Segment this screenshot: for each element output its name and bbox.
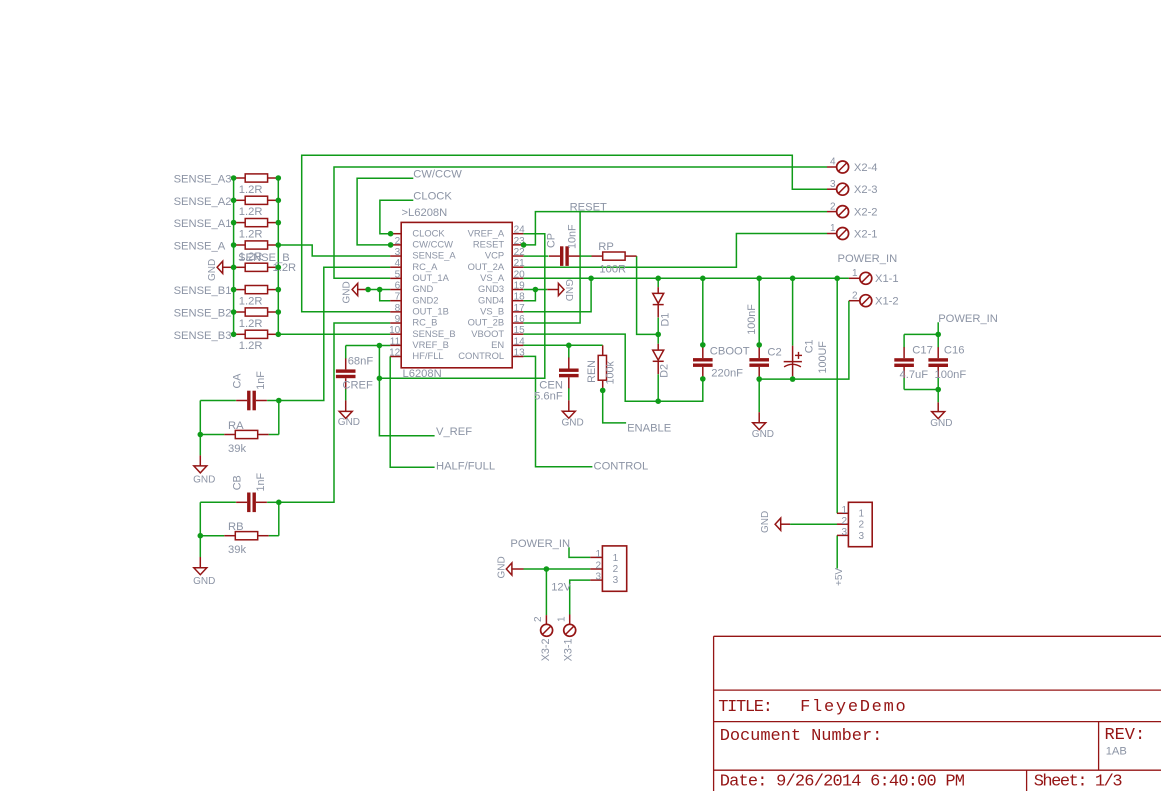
svg-text:RB: RB bbox=[228, 521, 244, 533]
connector screw X1-2 bbox=[849, 300, 860, 302]
svg-text:REN: REN bbox=[586, 360, 598, 383]
wire C16/C17 bottom tie bbox=[904, 389, 938, 391]
svg-text:GND: GND bbox=[496, 556, 507, 578]
wire C2 top from rail bbox=[758, 278, 760, 347]
svg-text:+5V: +5V bbox=[834, 568, 845, 586]
svg-text:3: 3 bbox=[859, 531, 865, 542]
svg-text:2: 2 bbox=[830, 201, 836, 212]
ground GND at SV1 pin2 bbox=[775, 518, 781, 530]
wire REN bottom to ENABLE label bbox=[603, 390, 626, 423]
junction dots sense array bbox=[231, 175, 237, 181]
resistor REN 100k bbox=[602, 345, 604, 355]
svg-text:3: 3 bbox=[613, 575, 619, 586]
svg-text:SENSE_A3: SENSE_A3 bbox=[174, 174, 232, 186]
svg-text:16: 16 bbox=[514, 314, 526, 325]
svg-text:14: 14 bbox=[514, 336, 526, 347]
svg-text:D1: D1 bbox=[660, 313, 672, 327]
connector X3 pin stubs bbox=[590, 556, 602, 558]
title block frame bbox=[714, 635, 1161, 637]
svg-text:GND: GND bbox=[752, 429, 774, 440]
svg-text:C1: C1 bbox=[803, 339, 815, 353]
wire X3 pin2 gnd row bbox=[524, 568, 591, 570]
svg-text:GND: GND bbox=[207, 259, 218, 281]
svg-text:6: 6 bbox=[395, 281, 401, 292]
svg-text:CW/CCW: CW/CCW bbox=[413, 169, 462, 181]
svg-text:Document Number:: Document Number: bbox=[720, 727, 883, 746]
wire CBOOT leads net bbox=[702, 278, 704, 348]
svg-text:1: 1 bbox=[852, 268, 858, 279]
svg-text:TITLE:: TITLE: bbox=[718, 698, 771, 717]
resistor 1.2R row 1 bbox=[234, 177, 246, 179]
wire C16 node to GND bbox=[937, 390, 939, 403]
ground GND at pins19/18 GND3 bbox=[547, 289, 558, 291]
IC U1 left pin stubs 1-12 bbox=[390, 233, 401, 235]
svg-text:4: 4 bbox=[830, 157, 836, 168]
junction dots bbox=[388, 231, 394, 237]
svg-text:RA: RA bbox=[228, 420, 244, 432]
wire X3-2 screw leg bbox=[545, 569, 547, 615]
svg-text:SENSE_B1: SENSE_B1 bbox=[174, 285, 232, 297]
svg-text:2: 2 bbox=[859, 520, 865, 531]
svg-text:9: 9 bbox=[395, 314, 401, 325]
svg-text:1.2R: 1.2R bbox=[239, 206, 263, 218]
svg-text:CREF: CREF bbox=[342, 379, 373, 391]
svg-text:39k: 39k bbox=[228, 544, 246, 556]
resistor 1.2R row 3 bbox=[234, 222, 246, 224]
wire CW/CCW pin2 to label bbox=[357, 178, 413, 245]
svg-text:17: 17 bbox=[514, 303, 526, 314]
svg-text:10nF: 10nF bbox=[566, 224, 578, 249]
svg-text:3: 3 bbox=[841, 527, 847, 538]
wire CA left leg down to RA/GND bbox=[199, 401, 201, 456]
ground GND at X3 pin2 bbox=[506, 563, 512, 575]
svg-text:1: 1 bbox=[613, 553, 619, 564]
svg-text:21: 21 bbox=[514, 258, 526, 269]
wire sense array left rail bbox=[233, 178, 235, 334]
connector screw X2-4 bbox=[827, 166, 837, 168]
wire RESET net: pin23 leg, label run to X2-2, pin16 leg bbox=[524, 212, 827, 245]
svg-text:5.6nF: 5.6nF bbox=[534, 391, 563, 403]
svg-text:EN: EN bbox=[491, 339, 504, 350]
svg-text:RESET: RESET bbox=[473, 238, 505, 249]
wire CREF vertical bbox=[345, 346, 347, 359]
connector screw X3-2 bbox=[541, 624, 553, 636]
wire RC_B pin9 to CB/RB bbox=[279, 323, 390, 502]
svg-text:RC_B: RC_B bbox=[412, 317, 437, 328]
svg-text:1.2R: 1.2R bbox=[239, 318, 263, 330]
wire C1 bottom bbox=[792, 376, 794, 379]
svg-text:C2: C2 bbox=[767, 347, 781, 359]
svg-text:1.2R: 1.2R bbox=[239, 184, 263, 196]
wire pin6 GND bbox=[368, 289, 390, 291]
connector screw X2-3 bbox=[827, 188, 837, 190]
wire VCP/RP to D1-D2 junction bbox=[637, 256, 659, 334]
wire pin22 VCP to CP bbox=[523, 255, 548, 257]
ground GND at sense array bbox=[217, 261, 223, 273]
svg-text:1nF: 1nF bbox=[255, 371, 267, 390]
wire VBOOT pin15 to D2/CBOOT bottom bbox=[523, 334, 702, 401]
svg-text:VREF_B: VREF_B bbox=[412, 339, 448, 350]
capacitor CREF 68nF bbox=[336, 369, 356, 372]
wire sense array right rail bbox=[277, 178, 279, 334]
svg-text:X1-1: X1-1 bbox=[875, 273, 899, 285]
wire D2 net segments bbox=[657, 334, 659, 343]
svg-text:SENSE_B: SENSE_B bbox=[238, 252, 290, 264]
capacitor CA 1nF bbox=[247, 391, 250, 411]
IC U1 right pin stubs 24-13 bbox=[512, 356, 523, 358]
wire VS power rail to X1-1 bbox=[523, 277, 849, 279]
svg-text:X3-1: X3-1 bbox=[563, 638, 575, 661]
svg-text:HF/FLL: HF/FLL bbox=[412, 350, 443, 361]
svg-text:100k: 100k bbox=[605, 360, 617, 384]
svg-text:VS_A: VS_A bbox=[480, 272, 505, 283]
svg-text:13: 13 bbox=[514, 348, 526, 359]
resistor RB 39k bbox=[235, 532, 257, 540]
wire C2 to GND symbol bbox=[758, 379, 760, 412]
svg-text:4: 4 bbox=[395, 258, 401, 269]
svg-text:GND3: GND3 bbox=[478, 283, 504, 294]
svg-text:2: 2 bbox=[595, 561, 601, 572]
svg-text:C16: C16 bbox=[944, 344, 965, 356]
wire D1 net segments bbox=[657, 278, 659, 287]
svg-text:1AB: 1AB bbox=[1106, 746, 1127, 758]
wire CB node bbox=[200, 501, 236, 503]
connector X3 3-pin header box bbox=[602, 546, 626, 591]
svg-text:19: 19 bbox=[514, 281, 526, 292]
svg-text:CB: CB bbox=[232, 475, 244, 490]
svg-text:OUT_1A: OUT_1A bbox=[412, 272, 449, 283]
connector screw X2-2 bbox=[827, 211, 837, 213]
svg-text:D2: D2 bbox=[659, 364, 671, 378]
ground GND at pins 6/7 bbox=[357, 289, 368, 291]
connector screw X3-1 bbox=[564, 624, 576, 636]
svg-text:Date: 9/26/2014 6:40:00 PM: Date: 9/26/2014 6:40:00 PM bbox=[720, 773, 965, 791]
wire RB right leg up to CB bbox=[278, 502, 280, 535]
svg-text:100nF: 100nF bbox=[746, 304, 758, 335]
svg-text:SENSE_A1: SENSE_A1 bbox=[174, 218, 232, 230]
svg-text:OUT_1B: OUT_1B bbox=[412, 305, 448, 316]
resistor 1.2R row 4 bbox=[234, 244, 246, 246]
svg-text:68nF: 68nF bbox=[348, 356, 374, 368]
svg-text:GND: GND bbox=[562, 417, 584, 428]
svg-text:2: 2 bbox=[613, 564, 619, 575]
svg-text:CA: CA bbox=[232, 373, 244, 389]
wire CB left leg down to RB/GND bbox=[199, 502, 201, 557]
wire C1 top from rail bbox=[792, 278, 794, 345]
svg-text:GND: GND bbox=[193, 474, 215, 485]
wire SV1 pin3 to +5V label bbox=[836, 535, 838, 568]
wire HALF/FULL pin12 leg bbox=[390, 356, 434, 467]
svg-text:X1-2: X1-2 bbox=[875, 296, 899, 308]
svg-text:X2-3: X2-3 bbox=[854, 184, 878, 196]
svg-text:22: 22 bbox=[514, 247, 526, 258]
svg-text:VS_B: VS_B bbox=[480, 305, 504, 316]
wire X3 POWER_IN to pin1 bbox=[569, 547, 590, 557]
capacitor C17 4.7uF bbox=[894, 358, 914, 361]
wire RA right leg up to CA bbox=[278, 401, 280, 435]
svg-text:GND: GND bbox=[760, 511, 771, 533]
wire VS_B pin17 to rail bbox=[523, 278, 591, 312]
svg-text:OUT_2A: OUT_2A bbox=[468, 261, 505, 272]
wire C16/C17 top tie bbox=[904, 333, 938, 335]
svg-text:GND: GND bbox=[412, 283, 433, 294]
wire OUT_2A to X2-1 bbox=[523, 234, 827, 268]
wire X3 pin3 to X3-1 screw bbox=[570, 580, 591, 614]
svg-text:POWER_IN: POWER_IN bbox=[838, 253, 898, 265]
svg-text:GND: GND bbox=[338, 417, 360, 428]
svg-text:8: 8 bbox=[395, 303, 401, 314]
IC U1 L6208N box bbox=[401, 222, 512, 367]
wire SENSE_A to pin3 bbox=[278, 245, 390, 256]
svg-text:GND: GND bbox=[930, 418, 952, 429]
wire VREF join + V_REF label leg bbox=[379, 346, 434, 436]
svg-text:REV:: REV: bbox=[1105, 726, 1146, 745]
wire SENSE_B pin10 bbox=[278, 333, 390, 335]
svg-text:GND2: GND2 bbox=[412, 294, 438, 305]
capacitor C1 100UF polarized bbox=[792, 346, 794, 377]
svg-text:5: 5 bbox=[395, 269, 401, 280]
svg-text:SENSE_B: SENSE_B bbox=[412, 328, 455, 339]
wire C2/C1 bottom gnd run to X1-2 bbox=[758, 378, 760, 380]
resistor RA 39k bbox=[235, 430, 257, 438]
svg-text:1.2R: 1.2R bbox=[239, 228, 263, 240]
svg-text:VCP: VCP bbox=[485, 250, 504, 261]
svg-text:GND4: GND4 bbox=[478, 294, 504, 305]
svg-text:FleyeDemo: FleyeDemo bbox=[800, 698, 907, 717]
svg-text:1: 1 bbox=[841, 505, 847, 516]
svg-text:X2-2: X2-2 bbox=[854, 207, 878, 219]
wire CONTROL pin13 to label bbox=[523, 356, 592, 466]
wire rail to SV1 pin1 bbox=[836, 278, 838, 513]
ground GND below C16/C17 bbox=[932, 412, 945, 419]
svg-text:RP: RP bbox=[598, 241, 614, 253]
ground GND below RA bbox=[194, 466, 207, 473]
wire VREF_A pin24 under-IC run bbox=[379, 234, 544, 379]
capacitor C2 100nF bbox=[749, 358, 769, 361]
svg-text:2: 2 bbox=[533, 616, 544, 622]
wire C16 vertical bbox=[937, 334, 939, 347]
wire CP to RP bbox=[580, 255, 591, 257]
svg-text:220nF: 220nF bbox=[711, 368, 743, 380]
capacitor CBOOT 220nF bbox=[693, 358, 713, 361]
capacitor CP 10nF bbox=[560, 246, 563, 266]
connector screw X2-1 bbox=[827, 233, 837, 235]
svg-text:SENSE_A: SENSE_A bbox=[412, 250, 456, 261]
connector SV1 3-pin header box bbox=[848, 502, 872, 546]
svg-text:1nF: 1nF bbox=[255, 472, 267, 491]
ground GND below C2 bbox=[753, 423, 766, 430]
wire C17 vertical bbox=[903, 334, 905, 347]
svg-text:HALF/FULL: HALF/FULL bbox=[436, 461, 495, 473]
svg-text:2: 2 bbox=[395, 236, 401, 247]
capacitor CB 1nF bbox=[247, 493, 250, 513]
svg-text:RESET: RESET bbox=[570, 201, 607, 213]
svg-text:GND: GND bbox=[193, 576, 215, 587]
svg-text:1: 1 bbox=[595, 549, 601, 560]
wire pin6-pin7 tie bbox=[380, 290, 391, 301]
svg-text:3: 3 bbox=[830, 179, 836, 190]
svg-text:18: 18 bbox=[514, 292, 526, 303]
svg-text:X2-1: X2-1 bbox=[854, 228, 878, 240]
svg-text:100R: 100R bbox=[599, 264, 626, 276]
ground GND below CREF bbox=[339, 411, 352, 418]
svg-text:SENSE_A: SENSE_A bbox=[174, 241, 226, 253]
svg-text:39k: 39k bbox=[228, 443, 246, 455]
svg-text:24: 24 bbox=[514, 225, 526, 236]
connector screw X1-1 bbox=[849, 277, 860, 279]
svg-text:SENSE_B3: SENSE_B3 bbox=[174, 330, 232, 342]
svg-text:12: 12 bbox=[389, 348, 401, 359]
svg-text:100UF: 100UF bbox=[817, 341, 829, 374]
wire RC_A pin4 to CA/RA bbox=[279, 267, 390, 400]
resistor 1.2R row 7 bbox=[234, 311, 246, 313]
wire EN pin14 to REN bbox=[523, 344, 602, 346]
svg-text:10: 10 bbox=[389, 325, 401, 336]
svg-text:3: 3 bbox=[595, 572, 601, 583]
svg-text:VREF_A: VREF_A bbox=[468, 227, 505, 238]
wire CLOCK pin1 to label bbox=[380, 200, 413, 233]
svg-text:ENABLE: ENABLE bbox=[627, 423, 671, 435]
svg-text:SENSE_A2: SENSE_A2 bbox=[174, 196, 232, 208]
svg-text:Sheet: 1/3: Sheet: 1/3 bbox=[1034, 773, 1123, 791]
capacitor CEN 5.6nF bbox=[559, 369, 579, 372]
capacitor C16 100nF bbox=[928, 358, 948, 361]
svg-text:X3-2: X3-2 bbox=[540, 638, 552, 661]
svg-text:3: 3 bbox=[395, 247, 401, 258]
svg-text:12V: 12V bbox=[551, 581, 571, 593]
connector SV1 pin stubs bbox=[837, 512, 848, 514]
svg-text:CW/CCW: CW/CCW bbox=[412, 238, 453, 249]
svg-text:11: 11 bbox=[390, 336, 401, 347]
svg-text:CBOOT: CBOOT bbox=[710, 346, 750, 358]
wire RB leads bbox=[200, 535, 224, 537]
resistor 1.2R row 6 bbox=[234, 289, 246, 291]
resistor 1.2R row 2 bbox=[234, 199, 246, 201]
svg-text:GND: GND bbox=[341, 281, 352, 303]
svg-text:7: 7 bbox=[395, 292, 401, 303]
wire pin18-pin19 tie GND3/GND4 bbox=[524, 289, 548, 291]
ground GND below CEN bbox=[562, 411, 575, 418]
svg-text:SENSE_B2: SENSE_B2 bbox=[174, 308, 232, 320]
wire RA leads bbox=[200, 434, 224, 436]
svg-text:RC_A: RC_A bbox=[412, 261, 438, 272]
svg-text:2: 2 bbox=[852, 290, 858, 301]
ground GND below RB bbox=[194, 568, 207, 575]
wire OUT_1B to X2-3 top run bbox=[302, 155, 827, 311]
svg-text:15: 15 bbox=[514, 325, 526, 336]
resistor 1.2R row 8 bbox=[234, 333, 246, 335]
diode D2 bbox=[653, 350, 664, 360]
svg-text:VBOOT: VBOOT bbox=[471, 328, 504, 339]
resistor RP 100R bbox=[592, 255, 603, 257]
svg-text:100nF: 100nF bbox=[935, 369, 967, 381]
wire VREF_B pin11 horizontal bbox=[346, 345, 391, 347]
wire POWER_IN label to C16/C17 node bbox=[937, 322, 939, 334]
svg-text:C17: C17 bbox=[912, 344, 933, 356]
svg-text:2: 2 bbox=[841, 516, 847, 527]
svg-text:20: 20 bbox=[514, 269, 526, 280]
svg-text:POWER_IN: POWER_IN bbox=[938, 313, 998, 325]
svg-text:X2-4: X2-4 bbox=[854, 162, 878, 174]
svg-text:OUT_2B: OUT_2B bbox=[468, 317, 504, 328]
svg-text:CP: CP bbox=[546, 233, 558, 248]
svg-text:CONTROL: CONTROL bbox=[594, 461, 649, 473]
svg-text:4.7uF: 4.7uF bbox=[900, 369, 929, 381]
wire SV1 pin2 gnd row bbox=[790, 523, 837, 525]
svg-text:CONTROL: CONTROL bbox=[458, 350, 504, 361]
diode D1 bbox=[653, 293, 664, 303]
resistor 1.2R row 5 bbox=[234, 266, 246, 268]
svg-text:1.2R: 1.2R bbox=[239, 340, 263, 352]
wire OUT_1A to X2-4 run bbox=[334, 167, 827, 278]
svg-text:POWER_IN: POWER_IN bbox=[510, 538, 570, 550]
svg-text:CLOCK: CLOCK bbox=[413, 191, 452, 203]
svg-text:CLOCK: CLOCK bbox=[412, 227, 445, 238]
svg-text:>L6208N: >L6208N bbox=[402, 207, 448, 219]
wire CEN vertical bbox=[568, 345, 570, 358]
svg-text:V_REF: V_REF bbox=[436, 426, 472, 438]
svg-text:GND: GND bbox=[563, 279, 574, 301]
svg-text:L6208N: L6208N bbox=[403, 368, 442, 380]
svg-text:1: 1 bbox=[859, 509, 865, 520]
svg-text:1: 1 bbox=[556, 616, 567, 622]
svg-text:1.2R: 1.2R bbox=[239, 295, 263, 307]
svg-text:1: 1 bbox=[830, 223, 836, 234]
wire CA node bbox=[200, 400, 236, 402]
